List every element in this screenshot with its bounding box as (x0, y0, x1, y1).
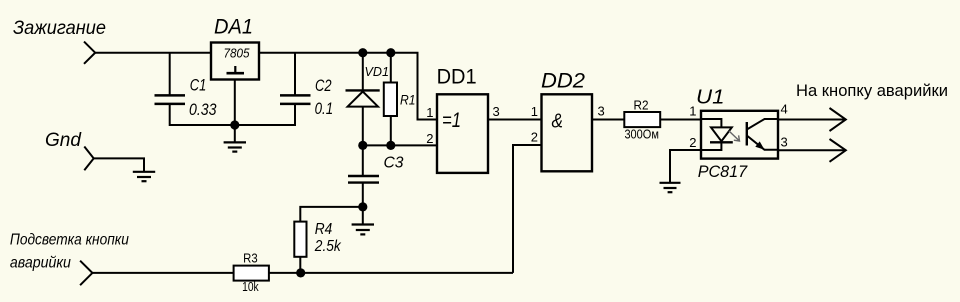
wire: U1 pin 2 to ground (670, 150, 701, 183)
node: top rail dot at VD1 (358, 48, 367, 57)
ground under U1 (660, 183, 681, 192)
voltage regulator DA1 (211, 16, 259, 80)
svg-text:DD1: DD1 (437, 65, 477, 88)
ground under DA1 (224, 125, 246, 152)
svg-text:0.33: 0.33 (189, 101, 217, 119)
light arrow inside U1 (729, 131, 740, 141)
svg-text:3: 3 (781, 135, 788, 150)
svg-text:аварийки: аварийки (10, 254, 71, 271)
resistor R2 (624, 99, 660, 142)
svg-text:DD2: DD2 (541, 70, 585, 93)
wire: DA1 common pin down to ground rail (234, 80, 236, 127)
svg-text:2: 2 (426, 131, 433, 146)
svg-text:2: 2 (531, 130, 538, 145)
svg-text:1: 1 (531, 104, 538, 119)
wire: bottom rail C1 to C2 (170, 124, 295, 126)
node: junction dot under DA1 (230, 120, 239, 129)
capacitor C3 (348, 145, 404, 207)
resistor R1 (384, 53, 416, 146)
svg-text:=1: =1 (442, 109, 461, 132)
connector: backlight input chevron (80, 261, 92, 286)
LED inside U1 (701, 119, 733, 150)
node: top rail dot at R1 (386, 48, 395, 57)
svg-text:На кнопку аварийки: На кнопку аварийки (796, 81, 948, 100)
logic gate DD1 (426, 65, 499, 173)
node: На кнопку аварийки label (796, 81, 948, 100)
node: Подсветка кнопки аварийки label (10, 232, 129, 272)
node: Gnd label (45, 130, 82, 151)
svg-text:300Ом: 300Ом (624, 127, 659, 141)
resistor R4 (294, 207, 363, 273)
node: junction dot below C3 (358, 202, 367, 211)
ground at Gnd connector (133, 172, 155, 181)
svg-text:R4: R4 (315, 221, 333, 238)
wire: R2 to U1 pin 1 (660, 119, 701, 121)
svg-text:VD1: VD1 (365, 64, 390, 79)
svg-text:&: & (552, 110, 564, 132)
phototransistor inside U1 (747, 119, 778, 150)
svg-text:C1: C1 (190, 77, 207, 95)
node: Зажигание label (13, 18, 106, 39)
svg-text:0.1: 0.1 (315, 100, 334, 118)
svg-text:2.5k: 2.5k (314, 238, 342, 255)
connector: ignition input chevron (84, 42, 95, 64)
svg-text:U1: U1 (696, 87, 725, 109)
wire: DD1 pin 3 to DD2 pin 1 (488, 119, 542, 121)
svg-text:2: 2 (689, 135, 696, 150)
svg-text:C2: C2 (315, 77, 332, 95)
svg-text:Подсветка кнопки: Подсветка кнопки (10, 232, 129, 249)
svg-text:3: 3 (598, 104, 605, 119)
wire: DD2 pin 3 to R2 (592, 119, 624, 121)
wire: bottom rail from R3 to DD2 pin 2 drop (269, 272, 513, 274)
resistor R3 (234, 252, 269, 294)
capacitor C1 (155, 53, 218, 126)
ground under C3 (352, 207, 374, 235)
wire: backlight connector to R3 (92, 272, 233, 274)
svg-text:Gnd: Gnd (45, 130, 82, 151)
svg-text:Зажигание: Зажигание (13, 18, 106, 39)
logic gate DD2 (531, 70, 605, 172)
capacitor C2 (280, 53, 333, 126)
wire: DD2 pin 2 down to bottom rail (513, 145, 542, 273)
svg-text:PC817: PC817 (698, 162, 748, 181)
zener diode VD1 (346, 53, 390, 146)
svg-text:1: 1 (426, 105, 433, 120)
wire: U1 pin 3 output (778, 149, 846, 151)
svg-text:10k: 10k (242, 280, 259, 294)
connector: Gnd chevron (84, 147, 93, 171)
svg-text:1: 1 (689, 104, 696, 119)
node: mid rail dot at R1 (386, 141, 395, 150)
svg-text:3: 3 (493, 104, 500, 119)
svg-text:4: 4 (781, 102, 788, 117)
wire: top rail from ignition connector to DA1 input (95, 52, 211, 54)
node: junction dot at R4 bottom (296, 268, 305, 277)
svg-text:R1: R1 (400, 92, 416, 108)
connector: output arrow pin 3 (830, 139, 846, 162)
svg-text:R3: R3 (243, 252, 258, 266)
optocoupler U1 (689, 87, 787, 182)
wire: top rail from DA1 output, corner down to DD1 pin 1 (259, 53, 438, 120)
wire: mid rail to DD1 pin 2 (363, 144, 438, 146)
connector: output arrow pin 4 (830, 108, 846, 131)
svg-text:DA1: DA1 (214, 16, 253, 39)
svg-text:R2: R2 (634, 99, 649, 113)
svg-text:7805: 7805 (224, 46, 251, 61)
wire: U1 pin 4 output (778, 119, 846, 121)
wire: Gnd connector to ground symbol (94, 158, 144, 171)
node: mid rail dot at VD1 (358, 141, 367, 150)
svg-text:C3: C3 (384, 155, 404, 172)
